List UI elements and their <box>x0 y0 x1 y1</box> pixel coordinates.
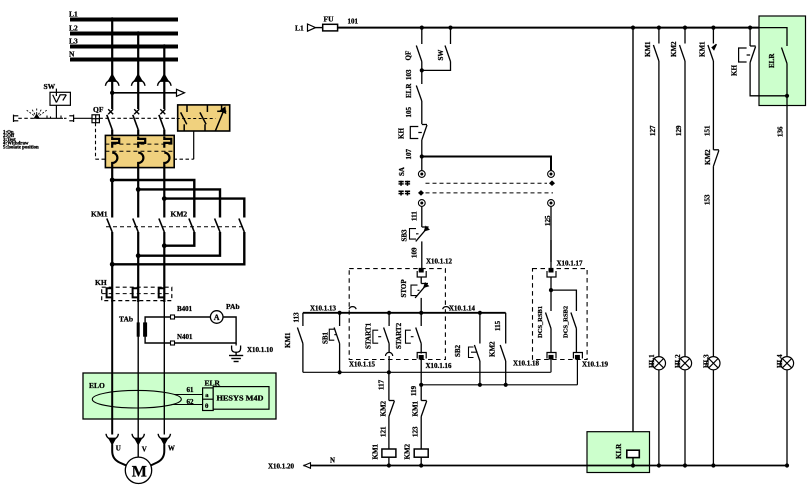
svg-text:KM2: KM2 <box>670 41 678 57</box>
wire feeder2 to ELO <box>137 302 139 373</box>
ELR HESYS M4D box <box>213 387 269 410</box>
mechanism dashed link to drawout box <box>96 158 194 160</box>
contact KM1 NC interlock <box>421 385 427 449</box>
node N KM2 coil <box>419 463 423 467</box>
svg-text:SB2: SB2 <box>454 344 462 357</box>
wire 101 <box>338 18 787 28</box>
svg-text:FU: FU <box>324 15 335 24</box>
wire X19 to line119 <box>576 360 578 385</box>
svg-text:A: A <box>214 313 220 322</box>
switch SW box <box>50 89 70 106</box>
pushbutton SB1 NO <box>329 313 339 373</box>
svg-text:START1: START1 <box>365 322 373 349</box>
svg-text:L1: L1 <box>69 10 78 19</box>
svg-text:115: 115 <box>494 320 502 331</box>
svg-text:109: 109 <box>411 247 419 258</box>
wire column HL3 <box>712 28 714 44</box>
plug contact arrow feeder2 <box>131 75 145 86</box>
wire DCS split <box>549 277 577 311</box>
node SB1 bottom <box>338 370 342 374</box>
svg-text:KM2: KM2 <box>404 443 412 459</box>
drawout contact feeder3 <box>164 137 171 168</box>
breaker QF pole2 <box>133 109 139 129</box>
bus N <box>69 50 178 60</box>
wire line 372 <box>303 371 551 373</box>
node KM2 out3 <box>110 262 115 267</box>
lamp HL1 <box>648 354 666 370</box>
wire 107 to right branch <box>422 157 551 171</box>
terminal X10.1.15 <box>349 352 393 372</box>
svg-text:PAb: PAb <box>226 302 240 311</box>
bus L3 <box>69 37 178 47</box>
wire KM2 pole1 bottom to L3 feeder <box>164 232 194 246</box>
wire feeder3 to ELO <box>163 302 165 373</box>
wire SA left top stub <box>421 157 423 171</box>
node SB2 bottom <box>478 383 482 387</box>
breaker QF pole1 <box>107 109 113 129</box>
svg-text:X10.1.12: X10.1.12 <box>426 258 453 266</box>
drawout contact feeder1 <box>112 137 119 168</box>
wire W to motor <box>149 444 165 466</box>
svg-text:θ: θ <box>205 403 209 410</box>
svg-text:136: 136 <box>777 126 785 137</box>
thermal relay KH middle dashed line <box>102 293 172 295</box>
contactor KM2 pole2 <box>215 219 220 233</box>
wire 125 to terminal <box>550 240 552 269</box>
pushbutton SB2 NO <box>469 313 480 385</box>
SA contact circle top-right <box>548 171 555 178</box>
wire feeder1 upper <box>111 20 113 110</box>
node QF branch <box>420 26 424 30</box>
plug arrow V <box>132 434 147 454</box>
contact ELR trip NO <box>750 28 787 357</box>
svg-text:62: 62 <box>187 398 195 406</box>
svg-text:X10.1.17: X10.1.17 <box>557 259 584 267</box>
wire column HL2 <box>684 28 686 44</box>
wire 125 <box>544 206 552 262</box>
SA contact circle top-left <box>418 171 425 178</box>
wire HL1 to N <box>658 370 660 466</box>
wire line 313 <box>303 312 506 314</box>
node 119 <box>419 383 423 387</box>
label remote CJK <box>399 181 411 186</box>
node STOP out <box>419 311 423 315</box>
mechanism right coupler bracket <box>64 115 92 122</box>
svg-text:START2: START2 <box>395 322 403 349</box>
contactor linkage dashed <box>106 226 244 228</box>
thermal element feeder2 <box>133 288 139 302</box>
thermal relay KH box dashed <box>102 287 172 300</box>
svg-text:KM1: KM1 <box>699 41 707 57</box>
wire feeder1 to ELO <box>111 302 113 373</box>
wire feeder2 in ELO <box>137 373 139 457</box>
mechanism left coupler bracket <box>14 115 19 122</box>
wire B401 <box>145 305 210 324</box>
contact KM2 NC interlock <box>389 401 395 450</box>
svg-text:M: M <box>132 463 147 480</box>
contact DCS_RSB1 NO <box>546 313 552 354</box>
local station dashed box <box>349 269 445 360</box>
svg-text:KH: KH <box>398 128 406 139</box>
svg-text:N: N <box>69 50 75 59</box>
contact KH NC thermal <box>410 125 427 157</box>
DCS dashed box <box>533 269 588 360</box>
svg-text:QF: QF <box>93 105 104 114</box>
plug arrow W <box>158 434 175 453</box>
wire feeder3 below QF <box>163 130 165 137</box>
svg-text:X10.1.18: X10.1.18 <box>513 360 540 368</box>
svg-text:L2: L2 <box>69 24 78 33</box>
pushbutton START2 NO <box>406 313 422 354</box>
svg-text:KM1: KM1 <box>284 332 292 348</box>
breaker QF mechanism box <box>92 115 99 123</box>
svg-text:STOP: STOP <box>400 279 408 298</box>
terminal X10.1.10 <box>232 343 274 354</box>
node col KH top <box>748 26 752 30</box>
svg-text:KH: KH <box>95 278 107 287</box>
wire feeder3 to KM1 <box>163 168 165 218</box>
svg-text:KM2: KM2 <box>380 400 388 416</box>
svg-text:DCS_RSB1: DCS_RSB1 <box>537 306 544 338</box>
label local CJK <box>399 191 411 196</box>
KLR relay green box <box>587 432 650 473</box>
wire ELO 61 <box>175 386 203 395</box>
node feeder2 KM2 tap <box>136 187 141 192</box>
terminal X10.1.14 <box>443 305 476 313</box>
control L1 source <box>295 24 323 33</box>
svg-text:HESYS M4D: HESYS M4D <box>217 396 264 403</box>
wire U to motor <box>112 444 128 466</box>
wire KM2 pole2 bottom to L2 feeder <box>138 232 220 256</box>
svg-text:X10.1.10: X10.1.10 <box>247 346 274 354</box>
wire 111 <box>411 206 422 227</box>
node feeder3 KM2 tap <box>162 196 167 201</box>
node N HL2 <box>683 463 687 467</box>
svg-text:KM2: KM2 <box>171 210 188 219</box>
svg-text:U: U <box>116 445 121 453</box>
mechanism dashed link left <box>18 117 36 119</box>
pushbutton SB3 NC <box>410 227 429 269</box>
node SW branch <box>448 26 452 30</box>
plug contact arrow feeder3 <box>158 75 172 86</box>
svg-text:L1: L1 <box>295 24 304 33</box>
lamp HL4 <box>776 354 794 370</box>
svg-text:ELO: ELO <box>89 381 105 390</box>
svg-text:TAb: TAb <box>119 315 133 324</box>
svg-text:5:Isolate position: 5:Isolate position <box>3 145 39 150</box>
wire feeder1 to KM1 <box>111 168 113 218</box>
svg-text:105: 105 <box>405 107 413 118</box>
svg-text:113: 113 <box>293 312 301 323</box>
terminal square B401 <box>171 315 175 319</box>
svg-text:123: 123 <box>412 426 420 437</box>
contact KM2 NC lamp3 <box>713 150 719 357</box>
svg-text:119: 119 <box>410 385 418 396</box>
QF auxiliary contact box <box>177 105 230 131</box>
wire feeder2 upper <box>137 34 139 110</box>
wire feeder2 to KH <box>137 232 139 288</box>
svg-text:KLR: KLR <box>615 443 623 459</box>
contactor KM1 pole1 <box>107 219 112 233</box>
svg-text:SW: SW <box>44 82 56 91</box>
plug arrow U <box>106 434 121 453</box>
svg-text:X10.1.14: X10.1.14 <box>449 305 476 313</box>
wire line 119 <box>410 385 577 396</box>
svg-text:107: 107 <box>405 149 413 160</box>
lamp HL2 <box>674 354 692 370</box>
coil KM2 <box>404 443 429 465</box>
svg-text:HL1: HL1 <box>648 354 656 368</box>
node N HL4 <box>785 463 789 467</box>
bus L2 <box>69 24 178 34</box>
svg-text:117: 117 <box>378 379 386 390</box>
breaker QF pole3 <box>159 109 165 129</box>
wire KM2 pole3 top <box>164 199 244 218</box>
svg-text:X10.1.13: X10.1.13 <box>310 305 337 313</box>
node KM2 out1 <box>162 243 167 248</box>
text multiposition legend <box>3 131 39 151</box>
svg-text:127: 127 <box>649 125 657 136</box>
wire KM2 pole3 bottom to L1 feeder <box>112 232 244 264</box>
node SB1 top <box>338 311 342 315</box>
contact KM1 aux NO left <box>297 313 303 373</box>
contact KM2 aux NO <box>500 345 506 385</box>
svg-text:ELR: ELR <box>405 83 413 98</box>
ammeter PAb <box>210 302 239 323</box>
ground symbol <box>229 352 243 361</box>
svg-text:61: 61 <box>187 386 195 394</box>
wire N line <box>268 457 787 471</box>
contact KM1 aux lamp1 <box>653 45 659 357</box>
svg-text:X10.1.20: X10.1.20 <box>268 463 295 471</box>
selector fan 5-position <box>27 108 47 119</box>
ELO earth leakage sensor box <box>83 373 276 419</box>
node N HL3 <box>711 463 715 467</box>
wire ELO 62 <box>172 398 203 406</box>
wire KM2 pole1 top <box>112 180 194 218</box>
wire 115 <box>494 313 506 344</box>
terminal X10.1.17 <box>547 259 583 277</box>
terminal square N401 <box>171 341 175 345</box>
svg-text:HL2: HL2 <box>674 354 682 368</box>
contact KM1 aux lamp3 <box>708 44 717 150</box>
terminal X10.1.13 <box>310 305 356 313</box>
wire takeoff to right with arrow <box>112 89 184 96</box>
svg-text:KM1: KM1 <box>644 41 652 57</box>
node col HL1 top <box>657 26 661 30</box>
wire feeder3 upper <box>163 47 165 110</box>
svg-text:V: V <box>142 446 147 454</box>
node SB2 tap <box>478 311 482 315</box>
wire feeder1 in ELO <box>111 373 113 435</box>
svg-text:153: 153 <box>704 194 712 205</box>
SA contact circle bottom-right <box>548 200 555 207</box>
thermal element feeder1 <box>107 288 113 302</box>
svg-text:111: 111 <box>411 211 419 221</box>
svg-text:W: W <box>168 445 175 453</box>
wire feeder2 to KM1 <box>137 168 139 218</box>
SA contact circle bottom-left <box>418 200 425 207</box>
wire PAb to corner <box>145 317 236 343</box>
mechanism dashed link QF to aux box <box>99 117 177 119</box>
svg-text:SA: SA <box>398 167 406 176</box>
node ELR KH join <box>785 94 789 98</box>
ELR trip green box <box>759 16 806 106</box>
svg-text:HL3: HL3 <box>703 354 711 368</box>
node L1 tap <box>110 17 114 21</box>
terminal X10.1.19 <box>573 353 608 369</box>
svg-text:N401: N401 <box>177 333 193 341</box>
SA position row local <box>418 190 553 196</box>
svg-text:N: N <box>330 457 335 465</box>
node col KLR top <box>631 26 635 30</box>
contactor KM1 pole3 <box>159 219 164 233</box>
svg-text:129: 129 <box>675 125 683 136</box>
terminal X10.1.12 <box>417 258 452 277</box>
svg-text:QF: QF <box>405 51 413 61</box>
svg-text:L3: L3 <box>69 37 78 46</box>
lamp HL3 <box>703 354 721 370</box>
svg-text:DCS_RSB2: DCS_RSB2 <box>563 306 570 338</box>
wire feeder1 to KH <box>111 232 113 288</box>
svg-text:SW: SW <box>437 50 445 61</box>
svg-text:KM1: KM1 <box>372 443 380 459</box>
contactor KM1 pole2 <box>133 219 138 233</box>
svg-text:SB1: SB1 <box>322 331 330 344</box>
node N HL1 <box>657 463 661 467</box>
contact DCS_RSB2 NO <box>571 302 577 353</box>
svg-text:ELR: ELR <box>768 53 776 68</box>
wire X18 to line372 <box>550 360 552 373</box>
node feeder1 KM2 tap <box>110 178 115 183</box>
contactor KM2 pole3 <box>239 219 244 233</box>
node KM2 bottom <box>504 383 508 387</box>
wire column HL1 <box>658 28 660 44</box>
terminal X10.1.16 <box>417 353 452 385</box>
bus L1 <box>69 10 178 20</box>
svg-text:151: 151 <box>704 125 712 136</box>
contact ELR NO <box>416 70 422 124</box>
SA position row remote <box>426 180 556 186</box>
plug contact arrow feeder1 <box>105 75 119 86</box>
wire feeder2 below QF <box>137 130 139 137</box>
svg-text:KM2: KM2 <box>704 149 712 165</box>
wire SW to mechanism <box>55 105 57 118</box>
node N KM1 coil <box>387 463 391 467</box>
svg-text:KM2: KM2 <box>489 341 497 357</box>
wire 117 <box>378 372 389 400</box>
node 103 <box>420 68 424 72</box>
coil KM1 <box>372 443 396 465</box>
svg-text:X10.1.16: X10.1.16 <box>426 362 453 370</box>
node X15 bottom <box>387 370 391 374</box>
contact KM2 aux lamp2 <box>680 45 686 357</box>
fuse FU <box>323 15 338 31</box>
wire HL4 to N <box>786 370 788 466</box>
CT TAb bars <box>138 322 145 336</box>
node col HL3 top <box>711 26 715 30</box>
svg-text:KM1: KM1 <box>91 210 108 219</box>
wire feeder1 below QF <box>111 130 113 137</box>
wire aux box drop <box>193 131 195 159</box>
mechanism dashed link QF down <box>95 123 97 160</box>
thermal element feeder3 <box>159 288 165 302</box>
contact SW aux NO <box>422 28 451 71</box>
svg-text:KM1: KM1 <box>412 400 420 416</box>
ELO toroid ellipse <box>92 390 181 408</box>
svg-text:121: 121 <box>380 426 388 437</box>
node N KLR <box>631 463 635 467</box>
svg-text:KH: KH <box>731 65 739 76</box>
svg-text:125: 125 <box>544 215 552 226</box>
wire feeder3 to KH <box>163 232 165 288</box>
svg-text:X10.1.15: X10.1.15 <box>349 361 376 369</box>
wire HL3 to N <box>712 370 714 466</box>
contact QF aux NO <box>416 28 422 71</box>
pushbutton START1 NO <box>373 313 389 354</box>
svg-text:101: 101 <box>348 18 359 26</box>
svg-text:SB3: SB3 <box>401 229 409 242</box>
wire column KLR <box>632 28 634 451</box>
pushbutton STOP NC <box>411 277 428 313</box>
contact KH NC lamp <box>739 28 787 96</box>
node START1 top <box>387 311 391 315</box>
coil KLR <box>627 450 640 465</box>
node takeoff <box>110 91 114 95</box>
node col HL2 top <box>683 26 687 30</box>
node 107 <box>420 154 424 158</box>
wire feeder3 in ELO <box>163 373 165 435</box>
node L2 tap <box>136 31 140 35</box>
ELR terminal block <box>203 388 214 411</box>
node KM2 out2 <box>136 253 141 258</box>
wire HL2 to N <box>684 370 686 466</box>
drawout contact feeder2 <box>138 137 145 168</box>
mechanism line with position ticks <box>37 116 63 119</box>
wire KM2 pole2 top <box>138 189 220 217</box>
node L3 tap <box>162 44 166 48</box>
svg-text:B401: B401 <box>177 305 193 313</box>
svg-text:103: 103 <box>405 69 413 80</box>
contactor KM2 pole1 <box>189 219 194 233</box>
svg-text:HL4: HL4 <box>776 354 784 368</box>
terminal X10.1.18 <box>513 353 556 368</box>
svg-text:X10.1.19: X10.1.19 <box>582 361 609 369</box>
motor M <box>125 457 151 483</box>
drawout contacts box <box>105 135 174 167</box>
